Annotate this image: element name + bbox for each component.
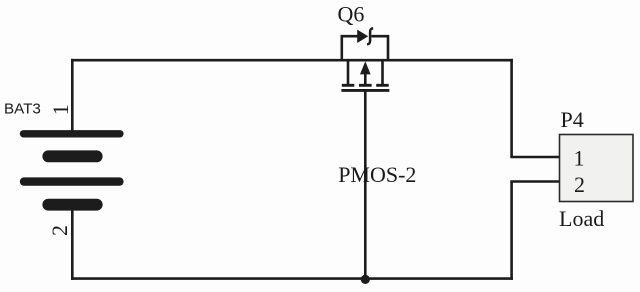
source leg left [347, 60, 350, 85]
wire: bottom horizontal net [71, 277, 513, 280]
body diode triangle [357, 30, 368, 43]
wire: left vertical to battery pin 1 [71, 59, 74, 131]
body diode cathode bar (hooked) [367, 28, 373, 44]
wire: Q6 gate vertical to bottom net [364, 91, 367, 279]
bulk contact bar middle [359, 84, 372, 87]
wire: right vertical upper (to P4 pin 1) [510, 59, 513, 157]
battery plate long lower [20, 177, 124, 185]
source contact bar left [342, 84, 355, 87]
svg-text:BAT3: BAT3 [4, 101, 41, 118]
junction dot at gate/bottom net [361, 275, 370, 284]
drain contact bar right [376, 84, 389, 87]
body diode left stub and anode wire [342, 36, 358, 60]
wire: top horizontal net [71, 59, 513, 62]
body diode right wire and stub [371, 36, 388, 60]
wire: P4 pin 2 horizontal [510, 180, 560, 183]
svg-text:Q6: Q6 [338, 1, 365, 26]
svg-text:2: 2 [574, 172, 585, 197]
svg-text:1: 1 [574, 146, 585, 171]
bulk stem [364, 73, 367, 86]
wire: P4 pin 1 horizontal [510, 156, 560, 159]
svg-text:P4: P4 [561, 107, 584, 132]
transistor Q6 (PMOS with body diode) [341, 28, 389, 90]
wire: battery pin 2 vertical down [71, 204, 74, 280]
connector P4 body [560, 135, 634, 202]
svg-text:PMOS-2: PMOS-2 [338, 162, 416, 187]
svg-text:2: 2 [47, 225, 72, 236]
drain leg right [381, 60, 384, 85]
svg-text:1: 1 [48, 104, 73, 115]
battery plate long top [20, 130, 124, 137]
bulk arrow (points up) [360, 61, 371, 74]
gate plate [341, 89, 389, 92]
svg-text:Load: Load [559, 206, 604, 231]
battery plate short upper [42, 150, 102, 162]
battery plate short bottom [42, 199, 102, 211]
battery BAT3 [20, 130, 124, 210]
wire: right vertical lower (P4 pin 2 to bottom net) [510, 182, 513, 280]
